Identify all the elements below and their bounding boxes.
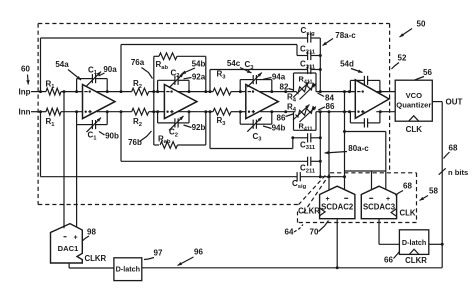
- svg-text:90a: 90a: [103, 65, 117, 74]
- svg-text:R1: R1: [46, 117, 56, 128]
- svg-text:50: 50: [417, 20, 426, 29]
- svg-text:DAC1: DAC1: [58, 244, 79, 253]
- svg-text:92a: 92a: [192, 72, 206, 81]
- svg-text:76a: 76a: [131, 58, 145, 67]
- svg-text:Rab: Rab: [156, 60, 169, 71]
- svg-text:97: 97: [154, 249, 163, 258]
- svg-text:+: +: [325, 196, 329, 203]
- svg-text:78a-c: 78a-c: [335, 31, 356, 40]
- svg-text:C2: C2: [169, 128, 178, 139]
- svg-text:86: 86: [326, 102, 335, 111]
- svg-text:R3: R3: [217, 116, 227, 127]
- svg-text:C1: C1: [88, 65, 98, 76]
- svg-text:Csig: Csig: [301, 26, 316, 37]
- svg-text:CLK: CLK: [406, 125, 423, 134]
- svg-text:54b: 54b: [192, 60, 206, 69]
- svg-text:VCO: VCO: [406, 91, 423, 100]
- svg-text:D-latch: D-latch: [116, 265, 140, 274]
- svg-text:SCDAC2: SCDAC2: [321, 202, 354, 211]
- svg-text:82: 82: [280, 83, 289, 92]
- svg-text:C311: C311: [300, 60, 316, 71]
- svg-text:R411: R411: [299, 75, 313, 86]
- svg-text:52: 52: [398, 54, 407, 63]
- svg-text:+: +: [73, 235, 77, 242]
- svg-text:68: 68: [403, 182, 412, 191]
- svg-text:68: 68: [449, 144, 458, 153]
- svg-text:56: 56: [423, 68, 432, 77]
- svg-text:98: 98: [87, 228, 96, 237]
- svg-text:64: 64: [285, 228, 294, 237]
- svg-text:CLK: CLK: [400, 209, 416, 218]
- svg-text:CLKR: CLKR: [405, 256, 427, 265]
- svg-text:CLKR: CLKR: [85, 254, 107, 263]
- svg-text:92b: 92b: [192, 123, 206, 132]
- svg-text:OUT: OUT: [446, 97, 463, 106]
- svg-text:54c: 54c: [227, 59, 241, 68]
- svg-text:n bits: n bits: [448, 168, 468, 177]
- svg-text:70: 70: [310, 228, 319, 237]
- svg-text:SCDAC3: SCDAC3: [363, 202, 396, 211]
- svg-text:+: +: [386, 196, 390, 203]
- svg-text:94b: 94b: [272, 124, 286, 133]
- svg-text:Quantizer: Quantizer: [396, 101, 431, 110]
- svg-text:54d: 54d: [340, 60, 354, 69]
- svg-text:R3: R3: [217, 70, 227, 81]
- svg-text:80a-c: 80a-c: [348, 144, 369, 153]
- svg-text:Inn: Inn: [19, 107, 31, 116]
- svg-text:Csig: Csig: [292, 179, 307, 190]
- svg-text:C1: C1: [88, 131, 98, 142]
- svg-text:D-latch: D-latch: [402, 238, 426, 247]
- svg-text:86: 86: [277, 113, 286, 122]
- svg-text:R2: R2: [133, 117, 142, 128]
- svg-text:Inp: Inp: [19, 87, 31, 96]
- svg-text:66: 66: [384, 256, 393, 265]
- svg-text:76b: 76b: [128, 138, 142, 147]
- svg-text:60: 60: [21, 65, 30, 74]
- svg-text:58: 58: [429, 187, 438, 196]
- svg-text:R2: R2: [133, 79, 142, 90]
- svg-text:CLKR: CLKR: [298, 207, 320, 216]
- svg-text:54a: 54a: [55, 60, 69, 69]
- svg-text:96: 96: [194, 248, 203, 257]
- svg-text:90b: 90b: [105, 132, 119, 141]
- svg-text:C211: C211: [300, 45, 316, 56]
- svg-text:94a: 94a: [272, 72, 286, 81]
- svg-text:C3: C3: [253, 132, 263, 143]
